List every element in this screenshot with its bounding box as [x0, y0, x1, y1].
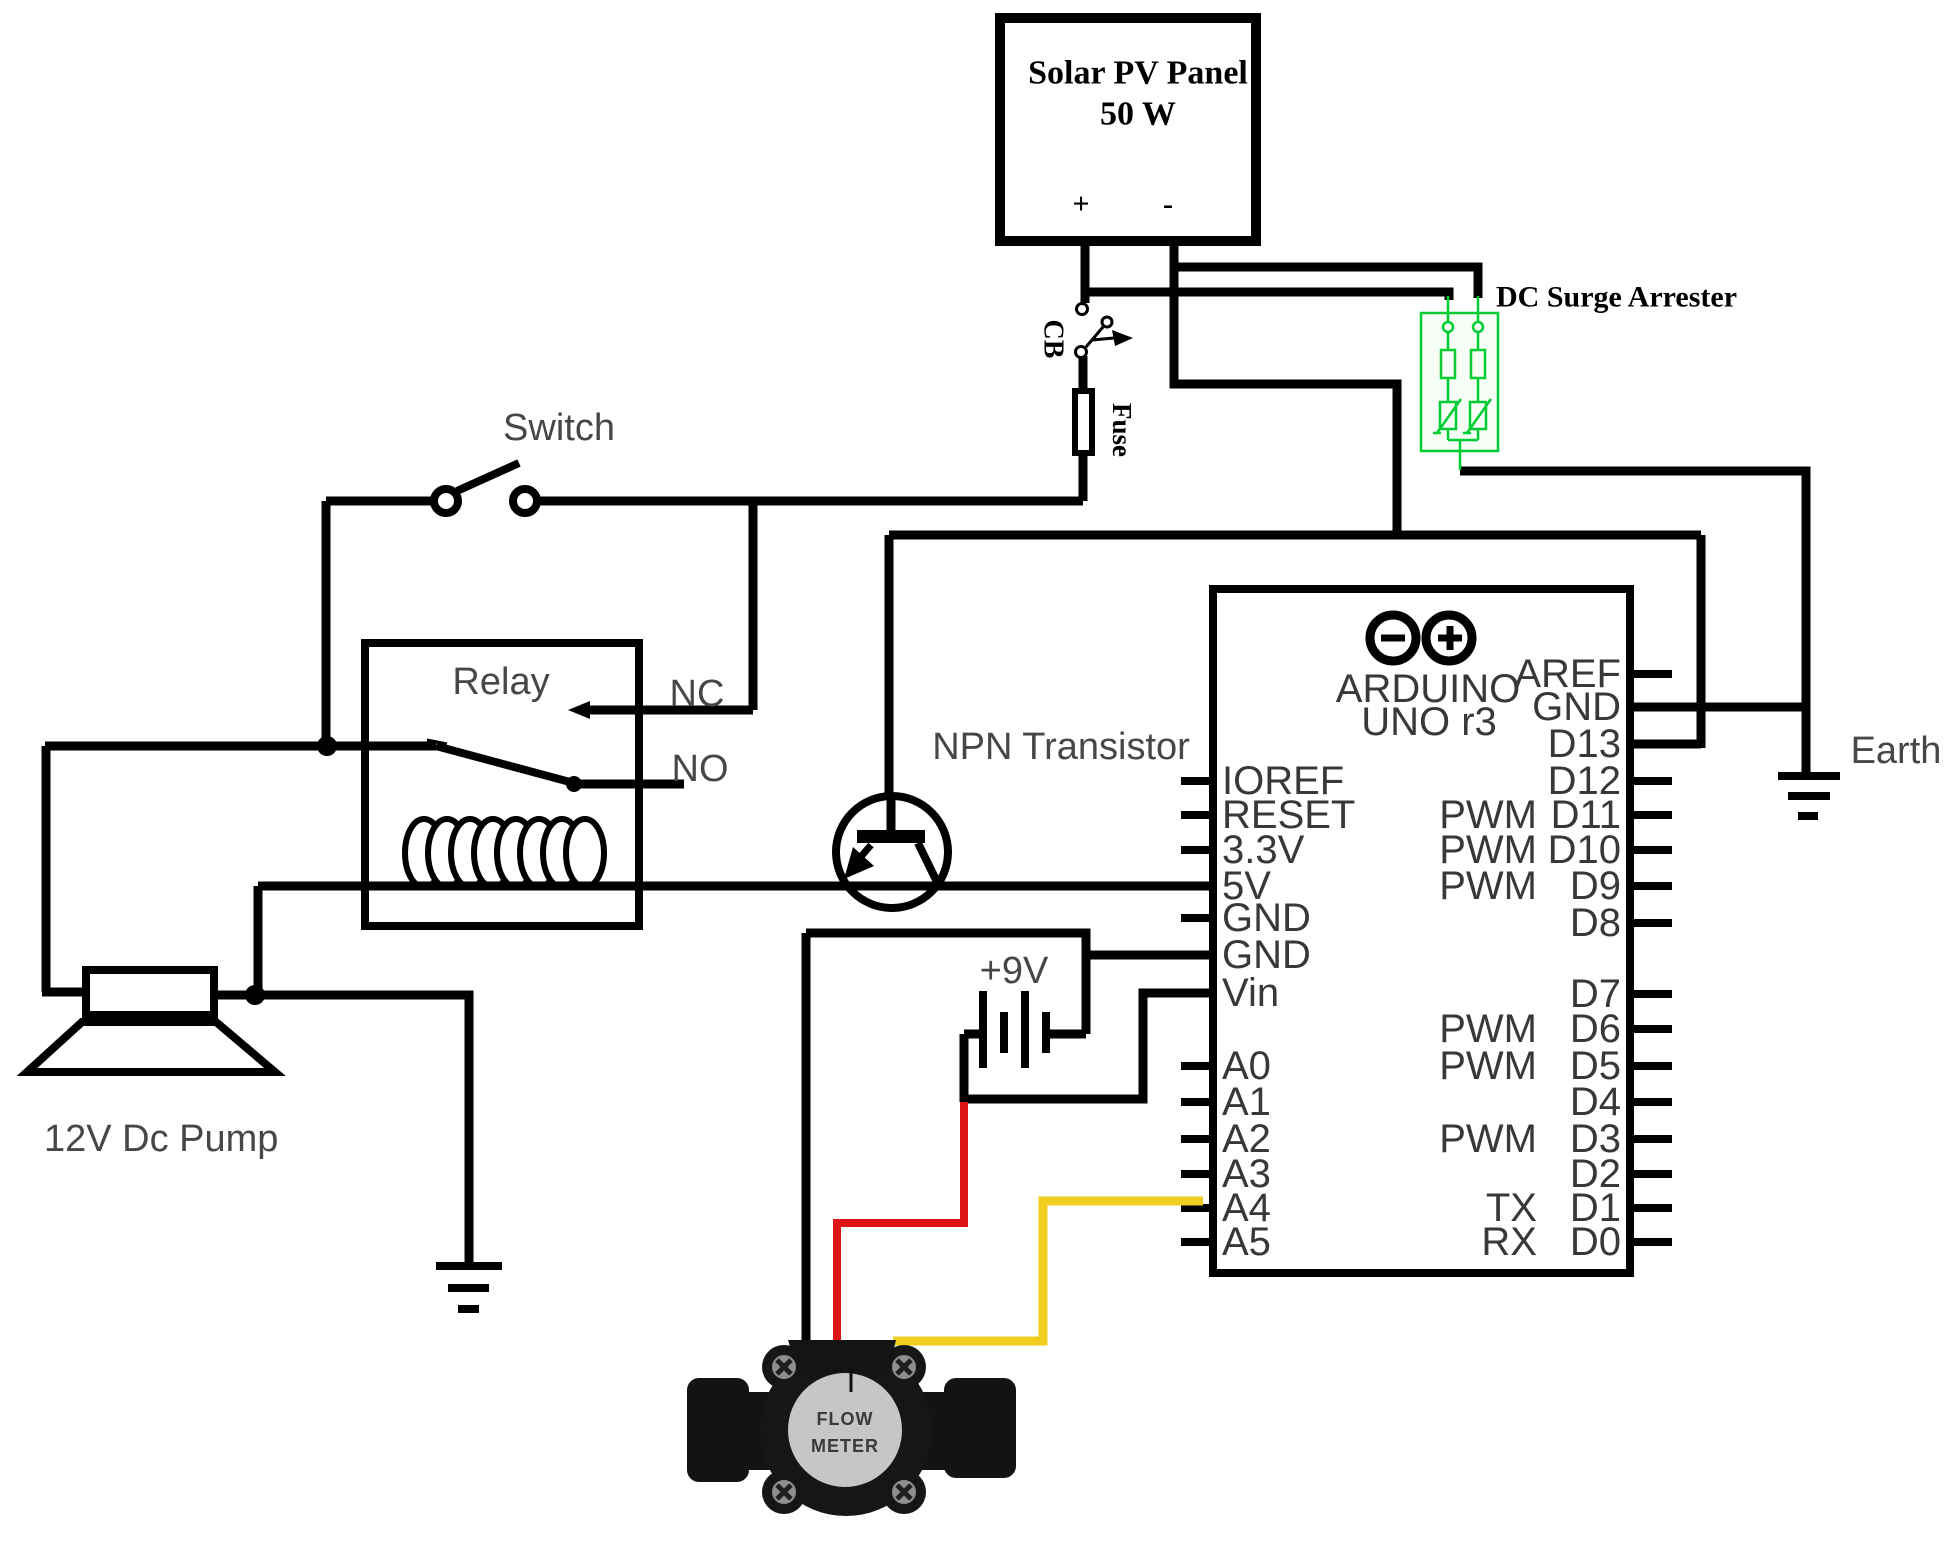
svg-text:Vin: Vin: [1222, 971, 1279, 1015]
svg-text:50 W: 50 W: [1100, 96, 1176, 133]
svg-text:PWM: PWM: [1439, 1117, 1537, 1161]
svg-text:Relay: Relay: [452, 661, 549, 703]
svg-text:A5: A5: [1222, 1220, 1271, 1264]
svg-text:NC: NC: [670, 673, 725, 715]
svg-text:METER: METER: [811, 1436, 879, 1456]
svg-text:Switch: Switch: [503, 407, 615, 449]
svg-text:FLOW: FLOW: [817, 1409, 874, 1429]
svg-text:PWM: PWM: [1439, 1044, 1537, 1088]
svg-text:NPN Transistor: NPN Transistor: [932, 726, 1190, 768]
svg-text:CB: CB: [1038, 320, 1069, 359]
svg-text:+9V: +9V: [980, 950, 1049, 992]
svg-text:NO: NO: [672, 748, 729, 790]
svg-text:D0: D0: [1570, 1220, 1621, 1264]
svg-text:DC Surge Arrester: DC Surge Arrester: [1496, 281, 1737, 314]
svg-text:+: +: [1072, 188, 1089, 221]
svg-text:Earth: Earth: [1851, 730, 1942, 772]
svg-text:12V Dc Pump: 12V Dc Pump: [44, 1118, 278, 1160]
svg-text:PWM: PWM: [1439, 864, 1537, 908]
svg-text:Fuse: Fuse: [1107, 403, 1137, 457]
svg-text:Solar PV Panel: Solar PV Panel: [1028, 55, 1248, 92]
svg-text:UNO r3: UNO r3: [1361, 700, 1497, 744]
svg-text:-: -: [1163, 188, 1173, 221]
svg-text:RX: RX: [1481, 1220, 1537, 1264]
svg-text:D8: D8: [1570, 901, 1621, 945]
